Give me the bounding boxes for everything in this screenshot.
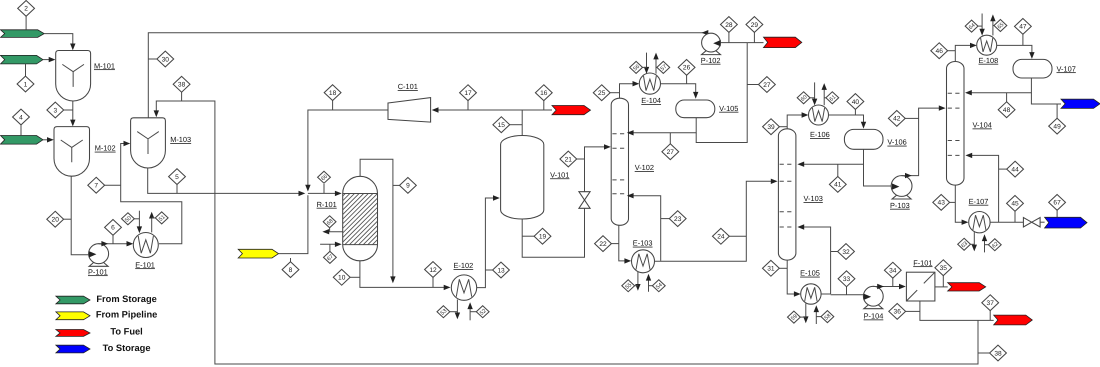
vessel V-107 [1013,59,1052,78]
node utility stream 62 [988,239,1001,251]
svg-text:24: 24 [717,234,725,241]
wire stem to node 30 [148,58,157,60]
column V-103 [778,129,796,260]
node stream 37 [982,295,999,311]
svg-text:1: 1 [24,81,28,88]
node utility stream 64 [965,20,978,32]
svg-text:From Storage: From Storage [96,294,156,304]
node stream 67 [1049,195,1066,211]
wire stem node 4 [20,124,22,135]
svg-text:34: 34 [889,268,897,275]
wire stem node 29 [753,32,755,42]
svg-text:M-101: M-101 [94,61,115,70]
svg-text:39: 39 [767,124,775,131]
node stream 1 [17,76,34,92]
node stream 20 [47,211,64,227]
mixer M-102 [54,127,90,177]
node stream 26 [678,60,695,76]
wire stem node 32 [831,251,838,253]
wire E-101 utility out stream 51 [151,216,153,233]
product arrow To Fuel stream 37 [994,315,1033,325]
wire stem node 48 [1006,93,1008,104]
heat-exchanger E-108 [977,35,997,55]
wire V-103 overhead to E-106 stream 39 [787,115,804,129]
node stream 49 [1049,118,1066,134]
svg-text:23: 23 [674,216,682,223]
wire stem node 44 [999,168,1007,170]
node stream 24 [713,228,730,244]
svg-text:12: 12 [429,267,437,274]
vessel V-106 [844,129,883,149]
wire E-107 utility in stream 62 [984,238,986,252]
node stream 36 [889,304,906,320]
wire E-107 vapor return stream 44 [969,155,998,222]
feed arrow From Storage stream 1 [1,55,44,64]
svg-text:46: 46 [936,48,944,55]
wire stem node 67b [1056,210,1058,217]
wire stem node 8 [290,258,292,262]
svg-text:18: 18 [329,90,337,97]
svg-text:4: 4 [19,114,23,121]
svg-text:E-108: E-108 [979,56,999,65]
wire stem node 43 [949,201,955,203]
svg-text:E-106: E-106 [810,130,830,139]
svg-text:40: 40 [852,99,860,106]
svg-text:To Fuel: To Fuel [110,326,142,336]
wire E-102 to V-101 stream 13 [477,198,495,288]
svg-text:43: 43 [938,200,946,207]
wire E-104 utility in stream 56 [646,53,648,70]
svg-text:47: 47 [1019,24,1027,31]
wire E-107 utility out stream 63 [973,232,975,248]
pump P-102 [702,51,721,55]
svg-text:27: 27 [667,149,675,156]
node stream 38 [990,345,1007,361]
svg-text:35: 35 [940,265,948,272]
node stream 29 [746,17,763,33]
legend arrow From Pipeline [56,312,90,320]
wire P-101 to E-101 stream 6 [99,243,130,245]
wire E-105 vapor return stream 32 [801,227,830,294]
wire stem node 24 [729,235,746,237]
wire E-107 outlet stream 45 [990,221,1023,223]
svg-text:E-103: E-103 [633,239,653,248]
wire top recycle line stream 30 (P-102 to M-103) [148,33,704,118]
svg-text:V-104: V-104 [973,121,992,130]
wire E-103 vapor return stream 23 [631,196,661,261]
svg-text:44: 44 [1011,166,1019,173]
svg-text:6: 6 [111,225,115,232]
wire E-106 utility out stream 61 [823,87,825,105]
wire V-101 overhead stream 15/16/17 [436,110,522,136]
svg-text:48: 48 [1003,107,1011,114]
node stream 48 [998,102,1015,118]
wire E-104 to V-105 stream 26 [661,84,696,95]
svg-text:21: 21 [565,156,573,163]
node stream 25 [593,85,610,101]
svg-text:M-102: M-102 [95,144,116,153]
compressor C-101 [388,98,431,123]
node utility stream 63 [958,238,971,250]
svg-text:32: 32 [842,249,850,256]
wire M-103 to R-101 feed stream 5 [148,168,302,193]
svg-text:45: 45 [1011,201,1019,208]
wire E-105 utility out stream 59 [805,304,807,320]
wire stem node 41 [837,164,839,177]
svg-text:V-106: V-106 [887,138,906,147]
wire R-101 side outlet stream 68 [326,231,343,233]
node stream 42 [888,111,905,127]
wire E-103 bottoms to V-103 stream 24 [655,181,773,261]
node utility stream 53 [437,306,450,318]
node stream 7 [88,177,105,193]
heat-exchanger E-102 [451,275,476,300]
wire stem node 37 [989,310,991,320]
node utility stream 52 [476,306,489,318]
valve on stream 21 [579,192,590,209]
mixer M-101 [56,51,91,101]
feed arrow From Storage stream 4 [1,136,44,145]
wire E-106 utility in stream 60 [814,82,816,101]
node stream 16 [535,85,552,101]
heat-exchanger E-103 [632,250,655,273]
node stream 30 [157,51,174,67]
node stream 15 [493,117,510,133]
valve on stream 67 [1023,218,1040,228]
node utility stream 65 [994,20,1007,32]
wire stem node 17 [467,100,469,110]
feed arrow From Storage stream 2 [1,30,45,38]
node stream 39 [763,119,780,135]
svg-text:5: 5 [175,174,179,181]
svg-text:V-101: V-101 [550,170,569,179]
svg-text:P-102: P-102 [701,56,721,65]
wire stem node 10 [350,276,360,278]
wire P-104 to F-101 stream 34 [873,286,901,288]
wire stem node 21 [576,158,584,160]
wire stem node 15 [509,124,522,126]
wire E-108 utility out stream 65 [992,18,994,35]
svg-text:E-107: E-107 [969,197,989,206]
column V-102 [611,98,628,225]
wire M-101 to M-102 stream 3 [72,101,74,123]
node stream 23 [669,211,686,227]
node stream 45 [1007,196,1024,212]
heat-exchanger E-106 [809,105,829,125]
svg-text:42: 42 [893,116,901,123]
heat-exchanger E-101 [133,233,158,258]
svg-text:15: 15 [498,122,506,129]
wire F-101 outlet stream 35 [935,286,948,288]
svg-text:P-103: P-103 [890,201,910,210]
wire stem node 34 [892,278,894,287]
node stream 17 [460,85,477,101]
wire E-106 to V-106 stream 40 [829,115,864,125]
svg-text:8: 8 [289,267,293,274]
legend arrow From Storage [56,296,90,304]
node stream 2 [18,0,35,16]
node stream 33 [838,271,855,287]
wire stem node 20 [63,218,71,220]
svg-text:V-107: V-107 [1057,64,1076,73]
svg-text:C-101: C-101 [398,82,418,91]
svg-text:E-101: E-101 [135,260,155,269]
svg-text:M-103: M-103 [170,135,191,144]
product arrow To Storage stream 49 [1061,99,1100,108]
node utility stream 66 [318,171,331,183]
wire stem node 40 [854,108,856,115]
node utility stream 60 [797,92,810,104]
wire E-103 utility out stream 55 [637,272,639,287]
wire stem to node 38b [978,352,990,354]
wire V-104 bottoms stream 43 [955,185,964,222]
svg-text:27: 27 [763,82,771,89]
svg-text:V-105: V-105 [719,104,738,113]
svg-text:E-104: E-104 [641,96,661,105]
wire V-103 bottoms stream 31 [787,260,796,294]
furnace F-101 [906,272,935,301]
heat-exchanger E-107 [969,212,990,233]
node stream 32 [838,244,855,260]
wire stem node 12 [432,277,434,287]
wire E-105 utility in stream 58 [815,309,817,324]
svg-text:37: 37 [987,300,995,307]
wire M-102 to P-101 stream 20 [71,176,89,255]
node stream 34 [884,262,901,278]
node utility stream 54 [652,280,665,292]
node utility stream 67 [324,251,337,263]
wire stem node 27b [669,133,671,146]
svg-text:V-102: V-102 [635,163,654,172]
pump P-103 [892,195,911,199]
svg-text:33: 33 [843,276,851,283]
svg-text:E-105: E-105 [800,269,820,278]
wire E-104 utility out stream 57 [655,56,657,73]
svg-text:E-102: E-102 [454,261,474,270]
product arrow To Fuel stream 35 [948,283,986,291]
wire stem node 9 [393,184,400,186]
wire E-108 utility in stream 64 [981,14,983,32]
wire to fuel stream 29 [747,42,763,44]
wire stem node 47 [1022,34,1024,45]
node stream 47 [1015,19,1032,35]
wire V-107 bottoms reflux stream 48 [969,78,1032,93]
svg-text:28: 28 [725,22,733,29]
node utility stream 51 [155,212,168,224]
svg-text:V-103: V-103 [804,194,823,203]
node stream 21 [560,151,577,167]
legend arrow To Storage [56,345,90,353]
node utility stream 50 [122,213,135,225]
wire stem node 27a [747,84,759,86]
wire stem to node 38 [181,92,183,101]
wire R-101 side inlet stream 67 [320,243,337,245]
wire stem node 46 [947,50,955,52]
wire stem node 2 [25,16,27,30]
node stream 13 [493,262,510,278]
wire stem node 35 [942,275,944,287]
node stream 40 [847,94,864,110]
wire F-101 bottoms stream 36/37 [920,301,994,320]
svg-text:20: 20 [52,217,60,224]
wire V-101 bottoms through valve stream 19/21 [522,208,584,257]
wire stem node 33 [846,286,848,294]
node utility stream 57 [657,61,670,73]
reactor R-101 [343,176,378,261]
wire stem node 25 [610,92,620,94]
node utility stream 55 [622,280,635,292]
wire stem node 5 [176,184,178,193]
svg-text:22: 22 [599,241,607,248]
svg-text:P-104: P-104 [864,312,884,321]
wire stem node 49 [1056,104,1058,120]
wire C-101 discharge stream 18 [308,110,388,188]
wire E-105 to P-104 stream 33 [821,293,864,296]
svg-text:41: 41 [834,182,842,189]
node stream 12 [425,262,442,278]
product arrow To Fuel stream 29 [764,37,802,47]
svg-text:36: 36 [894,309,902,316]
wire stem node 31 [779,267,787,269]
wire P-103 to V-104 stream 42 [902,108,941,176]
svg-text:10: 10 [338,275,346,282]
node stream 4 [13,109,30,125]
node utility stream 58 [821,311,834,323]
node stream 43 [933,195,950,211]
svg-text:17: 17 [464,90,472,97]
vessel V-105 [676,100,715,118]
wire E-101 utility in stream 50 [138,211,140,230]
node stream 9 [400,178,417,194]
wire junction to R-101 inlet [308,192,337,194]
svg-text:R-101: R-101 [317,200,337,209]
node stream 6 [105,220,122,236]
svg-text:38: 38 [178,82,186,89]
wire into P-102 stream 28 [721,42,747,44]
wire V-102 bottoms stream 22 [619,225,627,261]
wire stem node 16 [543,100,545,110]
node stream 27 [662,144,679,160]
node utility stream 56 [630,61,643,73]
svg-text:26: 26 [683,65,691,72]
legend arrow To Fuel [56,330,90,337]
node stream 38 [173,76,190,92]
wire stem node 66 [323,184,325,193]
svg-text:49: 49 [1053,123,1061,130]
wire stem node 36 [905,310,920,312]
wire E-102 utility out stream 53 [456,300,458,316]
wire V-105 bottoms reflux + to P-102 stream 27/28 [631,118,697,133]
node utility stream 68 [323,216,336,228]
mixer M-103 [131,118,166,168]
wire stream 2 into M-101 [44,34,73,47]
heat-exchanger E-105 [801,284,821,304]
vessel V-101 [501,136,544,219]
node stream 44 [1007,161,1024,177]
node utility stream 59 [788,311,801,323]
wire stem node 18 [332,100,334,110]
wire stem node 19 [522,235,534,237]
node stream 31 [763,260,780,276]
svg-text:P-101: P-101 [88,267,108,276]
node stream 19 [534,228,551,244]
wire V-106 bottoms reflux stream 41 [864,149,893,186]
svg-text:25: 25 [598,90,606,97]
node stream 18 [324,85,341,101]
node utility stream 61 [826,92,839,104]
wire stem node 23 [661,218,670,220]
wire stem node 26 [686,75,688,84]
wire E-102 utility in stream 52 [469,306,471,320]
wire stem node 1 [25,64,27,77]
node stream 22 [595,236,612,252]
wire stem node 22 [611,243,619,245]
svg-text:From Pipeline: From Pipeline [96,310,157,320]
svg-text:38: 38 [994,350,1002,357]
wire stem node 3 [63,109,72,111]
node stream 27 [759,77,776,93]
node stream 35 [935,260,952,276]
svg-text:7: 7 [94,183,98,190]
wire stream 1 into M-101 [43,59,51,61]
svg-text:16: 16 [540,90,548,97]
svg-text:2: 2 [24,6,28,13]
column V-104 [947,62,965,186]
wire stem node 39 [779,126,787,128]
svg-text:30: 30 [162,56,170,63]
wire R-101 bottoms to E-102 stream 10/12 [360,261,447,288]
node stream 46 [931,43,948,59]
wire stem node 13 [485,269,493,271]
heat-exchanger E-104 [639,73,660,94]
svg-text:19: 19 [539,234,547,241]
wire stem node 45 [1014,211,1016,223]
wire E-108 to V-107 stream 47 [997,45,1032,55]
wire bottom recycle line stream 38 (F-101 to M-103) [156,101,978,364]
node stream 3 [47,102,64,118]
svg-text:3: 3 [53,107,57,114]
wire stem node 6 [112,235,114,244]
node stream 8 [282,262,299,278]
svg-text:13: 13 [497,267,505,274]
product arrow To Fuel stream 16 [552,106,591,115]
svg-text:To Storage: To Storage [103,343,151,353]
svg-text:29: 29 [751,22,759,29]
product arrow To Storage stream 67 [1045,217,1087,228]
node stream 5 [169,169,186,185]
node stream 41 [829,177,846,193]
wire E-103 utility in stream 54 [648,278,650,292]
wire E-101 to M-103 stream 7 [121,144,182,244]
wire stem node 28 [728,32,730,42]
node stream 10 [333,269,350,285]
pump P-104 [864,305,883,309]
wire stem node 7 [104,184,120,186]
svg-text:67: 67 [1053,200,1061,207]
wire stem node 42 [905,117,919,119]
svg-text:9: 9 [406,183,410,190]
wire R-101 overhead stream 9 [360,159,393,279]
node stream 28 [721,17,738,33]
wire V-104 overhead to E-108 stream 46 [955,45,972,61]
pump P-101 [89,263,108,267]
wire pipeline feed riser [279,195,308,253]
feed arrow From Pipeline stream 8 [238,249,278,258]
wire V-102 overhead to E-104 stream 25 [620,84,635,99]
wire stream 4 into M-102 [43,139,49,141]
svg-text:31: 31 [767,266,775,273]
svg-text:F-101: F-101 [913,258,932,267]
